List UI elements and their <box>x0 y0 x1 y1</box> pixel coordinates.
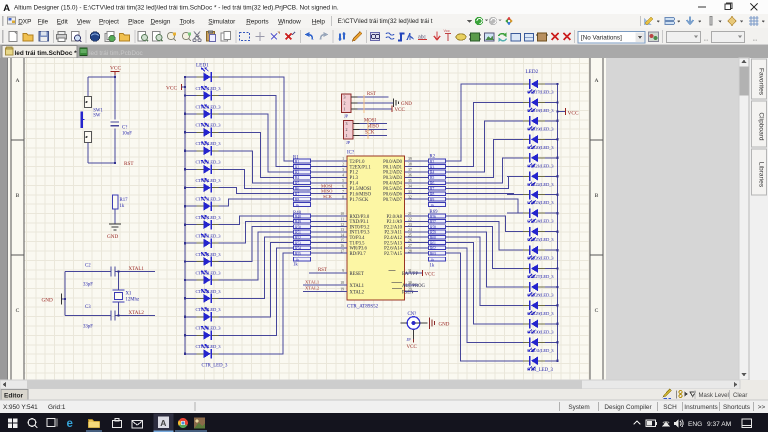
svg-text:15: 15 <box>340 239 344 243</box>
svg-text:P0.2/AD2: P0.2/AD2 <box>383 171 403 176</box>
svg-text:Instruments: Instruments <box>684 404 717 411</box>
svg-text:T0/P3.4: T0/P3.4 <box>350 236 366 241</box>
svg-text:R59: R59 <box>430 231 436 235</box>
svg-text:1k: 1k <box>431 258 435 262</box>
svg-text:5: 5 <box>342 179 344 183</box>
svg-text:R4: R4 <box>295 176 299 180</box>
svg-text:CTR21: CTR21 <box>527 163 540 168</box>
svg-text:JP: JP <box>344 114 349 119</box>
svg-text:XTAL1: XTAL1 <box>129 267 145 272</box>
svg-text:P0.4/AD4: P0.4/AD4 <box>383 182 403 187</box>
svg-text:MOSI: MOSI <box>321 183 333 188</box>
svg-text:INT1/P3.3: INT1/P3.3 <box>350 231 371 236</box>
svg-text:(LED_3: (LED_3 <box>540 256 555 261</box>
svg-text:X1: X1 <box>126 292 132 297</box>
svg-text:INT0/P3.2: INT0/P3.2 <box>350 225 371 230</box>
svg-text:(LED_3: (LED_3 <box>207 252 222 257</box>
svg-text:7: 7 <box>342 190 344 194</box>
svg-text:VCC: VCC <box>110 66 121 72</box>
svg-text:2: 2 <box>344 101 346 106</box>
svg-text:P2.4/A12: P2.4/A12 <box>384 236 402 241</box>
svg-text:R60: R60 <box>430 236 436 240</box>
svg-text:1k: 1k <box>430 264 435 269</box>
svg-text:R2: R2 <box>295 165 299 169</box>
svg-text:(LED_3: (LED_3 <box>540 219 555 224</box>
svg-text:39: 39 <box>408 157 412 161</box>
svg-text:4: 4 <box>342 174 344 178</box>
svg-text:(LED_3: (LED_3 <box>207 123 222 128</box>
svg-text:R54: R54 <box>295 247 301 251</box>
svg-text:VCC: VCC <box>425 273 436 278</box>
svg-text:(LED_3: (LED_3 <box>207 307 222 312</box>
svg-text:3: 3 <box>344 95 346 100</box>
svg-text:1k: 1k <box>120 204 125 209</box>
svg-text:38: 38 <box>408 163 412 167</box>
svg-text:Grid:1: Grid:1 <box>48 404 66 411</box>
svg-text:P1.7/SCK: P1.7/SCK <box>350 198 370 203</box>
svg-text:(LED_3: (LED_3 <box>540 145 555 150</box>
svg-text:(LED_3: (LED_3 <box>540 311 555 316</box>
svg-text:(LED_3: (LED_3 <box>207 270 222 275</box>
svg-text:24: 24 <box>408 228 412 232</box>
svg-text:A: A <box>3 3 10 14</box>
svg-text:(LED_3: (LED_3 <box>540 292 555 297</box>
svg-text:R69: R69 <box>430 210 439 215</box>
svg-text:CTR22: CTR22 <box>527 182 540 187</box>
svg-text:C2: C2 <box>85 264 91 269</box>
svg-text:(LED_3: (LED_3 <box>540 126 555 131</box>
svg-text:RD/P3.7: RD/P3.7 <box>350 252 367 257</box>
svg-text:P1.3: P1.3 <box>350 176 359 181</box>
svg-text:3: 3 <box>346 121 348 126</box>
svg-text:(LED_3: (LED_3 <box>207 104 222 109</box>
svg-text:VCC: VCC <box>395 108 406 113</box>
svg-text:P0.7/AD7: P0.7/AD7 <box>383 198 403 203</box>
svg-text:(LED_3: (LED_3 <box>540 182 555 187</box>
svg-text:26: 26 <box>408 239 412 243</box>
svg-text:P2.7/A15: P2.7/A15 <box>384 252 402 257</box>
svg-text:System: System <box>568 404 589 411</box>
svg-text:33pF: 33pF <box>83 325 93 330</box>
svg-text:CTR31: CTR31 <box>527 348 540 353</box>
svg-text:LED1: LED1 <box>196 63 209 69</box>
svg-text:R49: R49 <box>295 220 301 224</box>
svg-text:A: A <box>15 78 19 84</box>
svg-text:CTR18: CTR18 <box>527 108 540 113</box>
svg-text:Vcc: Vcc <box>444 29 450 33</box>
svg-text:A: A <box>594 78 598 84</box>
svg-text:2: 2 <box>346 127 348 132</box>
svg-text:XTAL2: XTAL2 <box>129 311 145 316</box>
svg-text:GND: GND <box>439 323 450 328</box>
svg-text:e: e <box>67 418 73 430</box>
svg-text:P0.0/AD0: P0.0/AD0 <box>383 160 403 165</box>
svg-text:(LED_3: (LED_3 <box>207 289 222 294</box>
svg-text:(LED_3: (LED_3 <box>207 215 222 220</box>
svg-text:(LED_3: (LED_3 <box>207 344 222 349</box>
svg-text:R3: R3 <box>295 171 299 175</box>
svg-text:C?: C? <box>122 125 127 130</box>
svg-text:R50: R50 <box>295 225 301 229</box>
svg-text:Clear: Clear <box>733 393 747 399</box>
svg-text:SCK: SCK <box>323 194 333 199</box>
svg-text:CTR_LED_3: CTR_LED_3 <box>202 363 228 368</box>
svg-text:VCC: VCC <box>568 110 579 116</box>
svg-text:R8: R8 <box>295 198 299 202</box>
svg-text:P0.3/AD3: P0.3/AD3 <box>383 176 403 181</box>
svg-text:1k: 1k <box>296 258 300 262</box>
svg-text:R4: R4 <box>430 171 434 175</box>
svg-text:Editor: Editor <box>4 393 23 400</box>
svg-text:(LED_3: (LED_3 <box>207 326 222 331</box>
svg-text:9:37 AM: 9:37 AM <box>707 421 731 428</box>
svg-text:R5: R5 <box>295 182 299 186</box>
svg-text:T2EX/P1.1: T2EX/P1.1 <box>350 165 372 170</box>
svg-text:led trái tim.PcbDoc: led trái tim.PcbDoc <box>89 50 143 57</box>
svg-text:R3: R3 <box>430 165 434 169</box>
svg-text:14: 14 <box>340 233 344 237</box>
svg-text:R7: R7 <box>295 193 299 197</box>
svg-text:30: 30 <box>408 281 412 285</box>
svg-text:CTR_LED_3: CTR_LED_3 <box>527 368 553 373</box>
svg-text:Help: Help <box>312 18 326 25</box>
svg-text:CTR28: CTR28 <box>527 292 540 297</box>
svg-text:R51: R51 <box>295 231 301 235</box>
svg-text:E:\CTV\led trái tim(32 led)\le: E:\CTV\led trái tim(32 led)\led trái t <box>338 18 433 25</box>
svg-text:P0.5/AD5: P0.5/AD5 <box>383 187 403 192</box>
svg-text:Altium Designer (15.0) - E:\CT: Altium Designer (15.0) - E:\CTV\led trái… <box>14 5 339 12</box>
svg-text:11: 11 <box>340 218 344 222</box>
svg-text:35: 35 <box>408 179 412 183</box>
svg-text:P2.3/A11: P2.3/A11 <box>384 231 402 236</box>
svg-text:22: 22 <box>408 218 412 222</box>
svg-text:B: B <box>16 193 20 199</box>
svg-text:(LED_3: (LED_3 <box>540 237 555 242</box>
svg-text:(LED_3: (LED_3 <box>540 329 555 334</box>
svg-text:1: 1 <box>342 157 344 161</box>
svg-text:12Mhz: 12Mhz <box>126 298 140 303</box>
svg-text:RST: RST <box>124 161 134 167</box>
svg-text:RST: RST <box>367 92 376 97</box>
svg-text:1k: 1k <box>293 263 298 268</box>
svg-text:21: 21 <box>408 212 412 216</box>
svg-text:(LED_3: (LED_3 <box>207 160 222 165</box>
svg-text:GND: GND <box>401 102 412 107</box>
svg-text:R9: R9 <box>430 198 434 202</box>
svg-text:33: 33 <box>408 190 412 194</box>
svg-text:JP: JP <box>346 140 351 145</box>
svg-text:XTAL2: XTAL2 <box>350 290 365 295</box>
svg-text:R57: R57 <box>430 220 436 224</box>
svg-text:Favorites: Favorites <box>758 68 765 96</box>
svg-text:R17: R17 <box>120 198 129 203</box>
svg-text:R62: R62 <box>430 247 436 251</box>
svg-text:File: File <box>38 18 49 25</box>
svg-text:P0.6/AD6: P0.6/AD6 <box>383 193 403 198</box>
svg-text:1k: 1k <box>296 203 300 207</box>
svg-text:CTR25: CTR25 <box>527 237 540 242</box>
svg-text:led trái tim.SchDoc *: led trái tim.SchDoc * <box>15 50 78 57</box>
svg-text:XTAL1: XTAL1 <box>305 279 320 284</box>
svg-text:13: 13 <box>340 228 344 232</box>
svg-text:9: 9 <box>342 269 344 273</box>
svg-text:(LED_3: (LED_3 <box>540 108 555 113</box>
svg-text:SCH: SCH <box>663 404 677 411</box>
svg-text:(LED_3: (LED_3 <box>207 141 222 146</box>
svg-text:1: 1 <box>344 107 346 112</box>
svg-text:C: C <box>16 308 20 314</box>
svg-text:1k: 1k <box>431 203 435 207</box>
svg-text:...: ... <box>753 37 758 43</box>
svg-text:P2.6/A14: P2.6/A14 <box>384 247 402 252</box>
svg-text:6: 6 <box>342 184 344 188</box>
svg-text:SW: SW <box>93 114 101 119</box>
svg-text:IC?: IC? <box>347 151 355 156</box>
svg-text:36: 36 <box>408 174 412 178</box>
svg-text:19: 19 <box>340 288 344 292</box>
svg-text:P0.1/AD1: P0.1/AD1 <box>383 165 403 170</box>
svg-text:R7: R7 <box>430 187 434 191</box>
svg-text:T1/P3.5: T1/P3.5 <box>350 241 366 246</box>
svg-text:RXD/P3.0: RXD/P3.0 <box>350 215 370 220</box>
svg-text:Mask Level: Mask Level <box>699 393 729 399</box>
svg-text:R6: R6 <box>295 187 299 191</box>
svg-text:A: A <box>160 418 166 428</box>
svg-text:XTAL1: XTAL1 <box>350 284 365 289</box>
svg-text:Libraries: Libraries <box>758 162 765 188</box>
svg-text:27: 27 <box>408 244 412 248</box>
svg-text:34: 34 <box>408 184 412 188</box>
svg-text:CTR29: CTR29 <box>527 311 540 316</box>
svg-text:R5: R5 <box>430 176 434 180</box>
svg-text:(LED_3: (LED_3 <box>207 197 222 202</box>
svg-text:R61: R61 <box>430 241 436 245</box>
svg-text:R6: R6 <box>430 182 434 186</box>
svg-text:(LED_3: (LED_3 <box>540 348 555 353</box>
svg-text:TXD/P3.1: TXD/P3.1 <box>350 220 370 225</box>
svg-text:CTR19: CTR19 <box>527 126 540 131</box>
svg-text:R52: R52 <box>295 236 301 240</box>
svg-text:JP: JP <box>407 337 412 342</box>
svg-text:MISO: MISO <box>321 189 333 194</box>
svg-text:RST: RST <box>318 268 327 273</box>
svg-text:R2: R2 <box>430 160 434 164</box>
svg-text:GND: GND <box>107 234 118 240</box>
svg-text:T2/P1.0: T2/P1.0 <box>350 160 366 165</box>
svg-text:10: 10 <box>340 212 344 216</box>
svg-text:R56: R56 <box>430 215 436 219</box>
svg-text:XTAL2: XTAL2 <box>305 286 320 291</box>
svg-text:View: View <box>77 18 91 25</box>
svg-text:Simulator: Simulator <box>208 18 236 25</box>
svg-text:P1.4: P1.4 <box>350 182 359 187</box>
svg-text:R8: R8 <box>430 193 434 197</box>
svg-text:VCC: VCC <box>166 86 177 92</box>
svg-text:MISO: MISO <box>367 125 380 130</box>
svg-text:CTR24: CTR24 <box>527 219 540 224</box>
svg-text:VCC: VCC <box>407 345 418 350</box>
svg-text:10uF: 10uF <box>122 131 132 136</box>
svg-text:28: 28 <box>408 249 412 253</box>
svg-text:32: 32 <box>408 195 412 199</box>
svg-text:R58: R58 <box>430 225 436 229</box>
svg-text:31: 31 <box>408 269 412 273</box>
svg-text:Design Compiler: Design Compiler <box>604 404 652 411</box>
svg-text:CTR_AT89S52: CTR_AT89S52 <box>347 305 379 310</box>
svg-text:ENG: ENG <box>688 421 702 428</box>
svg-text:(LED_3: (LED_3 <box>207 178 222 183</box>
svg-text:Project: Project <box>99 18 119 25</box>
svg-text:Clipboard: Clipboard <box>758 112 765 141</box>
svg-text:X:950 Y:541: X:950 Y:541 <box>3 404 38 411</box>
svg-text:12: 12 <box>340 223 344 227</box>
svg-text:(LED_3: (LED_3 <box>540 200 555 205</box>
svg-text:B: B <box>595 193 599 199</box>
svg-text:P2.2/A10: P2.2/A10 <box>384 225 402 230</box>
svg-text:CTR20: CTR20 <box>527 145 540 150</box>
svg-text:C: C <box>595 308 599 314</box>
svg-text:CTR17: CTR17 <box>527 90 540 95</box>
svg-text:P2.0/A8: P2.0/A8 <box>387 215 403 220</box>
svg-text:R53: R53 <box>295 241 301 245</box>
svg-text:(LED_3: (LED_3 <box>207 86 222 91</box>
svg-text:P1.5/MOSI: P1.5/MOSI <box>350 187 372 192</box>
svg-text:R2: R2 <box>430 155 436 160</box>
svg-text:Tools: Tools <box>180 18 195 25</box>
svg-text:CTR27: CTR27 <box>527 274 540 279</box>
svg-text:RESET: RESET <box>350 272 364 277</box>
svg-text:DXP: DXP <box>18 18 31 25</box>
svg-text:3: 3 <box>342 168 344 172</box>
svg-text:25: 25 <box>408 233 412 237</box>
svg-text:R48: R48 <box>293 211 302 216</box>
svg-text:P2.5/A13: P2.5/A13 <box>384 241 402 246</box>
svg-text:(LED_3: (LED_3 <box>540 90 555 95</box>
svg-text:GND: GND <box>42 298 53 304</box>
svg-text:Shortcuts: Shortcuts <box>723 404 750 411</box>
svg-text:LED2: LED2 <box>526 69 539 75</box>
svg-text:37: 37 <box>408 168 412 172</box>
svg-text:16: 16 <box>340 244 344 248</box>
svg-text:8: 8 <box>342 195 344 199</box>
svg-text:C3: C3 <box>85 305 91 310</box>
svg-text:R55: R55 <box>295 252 301 256</box>
svg-text:...: ... <box>704 37 709 43</box>
svg-text:SCK: SCK <box>365 131 375 136</box>
svg-text:P1.6/MISO: P1.6/MISO <box>350 193 372 198</box>
svg-text:17: 17 <box>340 249 344 253</box>
svg-text:R63: R63 <box>430 252 436 256</box>
svg-text:(LED_3: (LED_3 <box>540 274 555 279</box>
svg-text:P1.2: P1.2 <box>350 171 359 176</box>
svg-text:R1: R1 <box>293 156 299 161</box>
svg-text:CTR23: CTR23 <box>527 200 540 205</box>
svg-text:>>: >> <box>758 404 766 411</box>
svg-text:Reports: Reports <box>246 18 268 25</box>
svg-text:23: 23 <box>408 223 412 227</box>
svg-text:CTR30: CTR30 <box>527 329 540 334</box>
svg-text:18: 18 <box>340 281 344 285</box>
svg-text:MOSI: MOSI <box>364 119 376 124</box>
svg-text:Design: Design <box>151 18 171 25</box>
svg-text:(LED_3: (LED_3 <box>207 233 222 238</box>
svg-text:1: 1 <box>346 133 348 138</box>
svg-text:33pF: 33pF <box>83 283 93 288</box>
svg-text:29: 29 <box>408 288 412 292</box>
svg-text:(LED_3: (LED_3 <box>540 163 555 168</box>
svg-text:Window: Window <box>278 18 301 25</box>
svg-text:CTR26: CTR26 <box>527 256 540 261</box>
svg-text:[No Variations]: [No Variations] <box>581 35 622 42</box>
svg-text:Place: Place <box>128 18 144 25</box>
svg-text:Edit: Edit <box>57 18 68 25</box>
svg-text:WR/P3.6: WR/P3.6 <box>350 247 368 252</box>
svg-text:2: 2 <box>342 163 344 167</box>
svg-text:P2.1/A9: P2.1/A9 <box>387 220 403 225</box>
